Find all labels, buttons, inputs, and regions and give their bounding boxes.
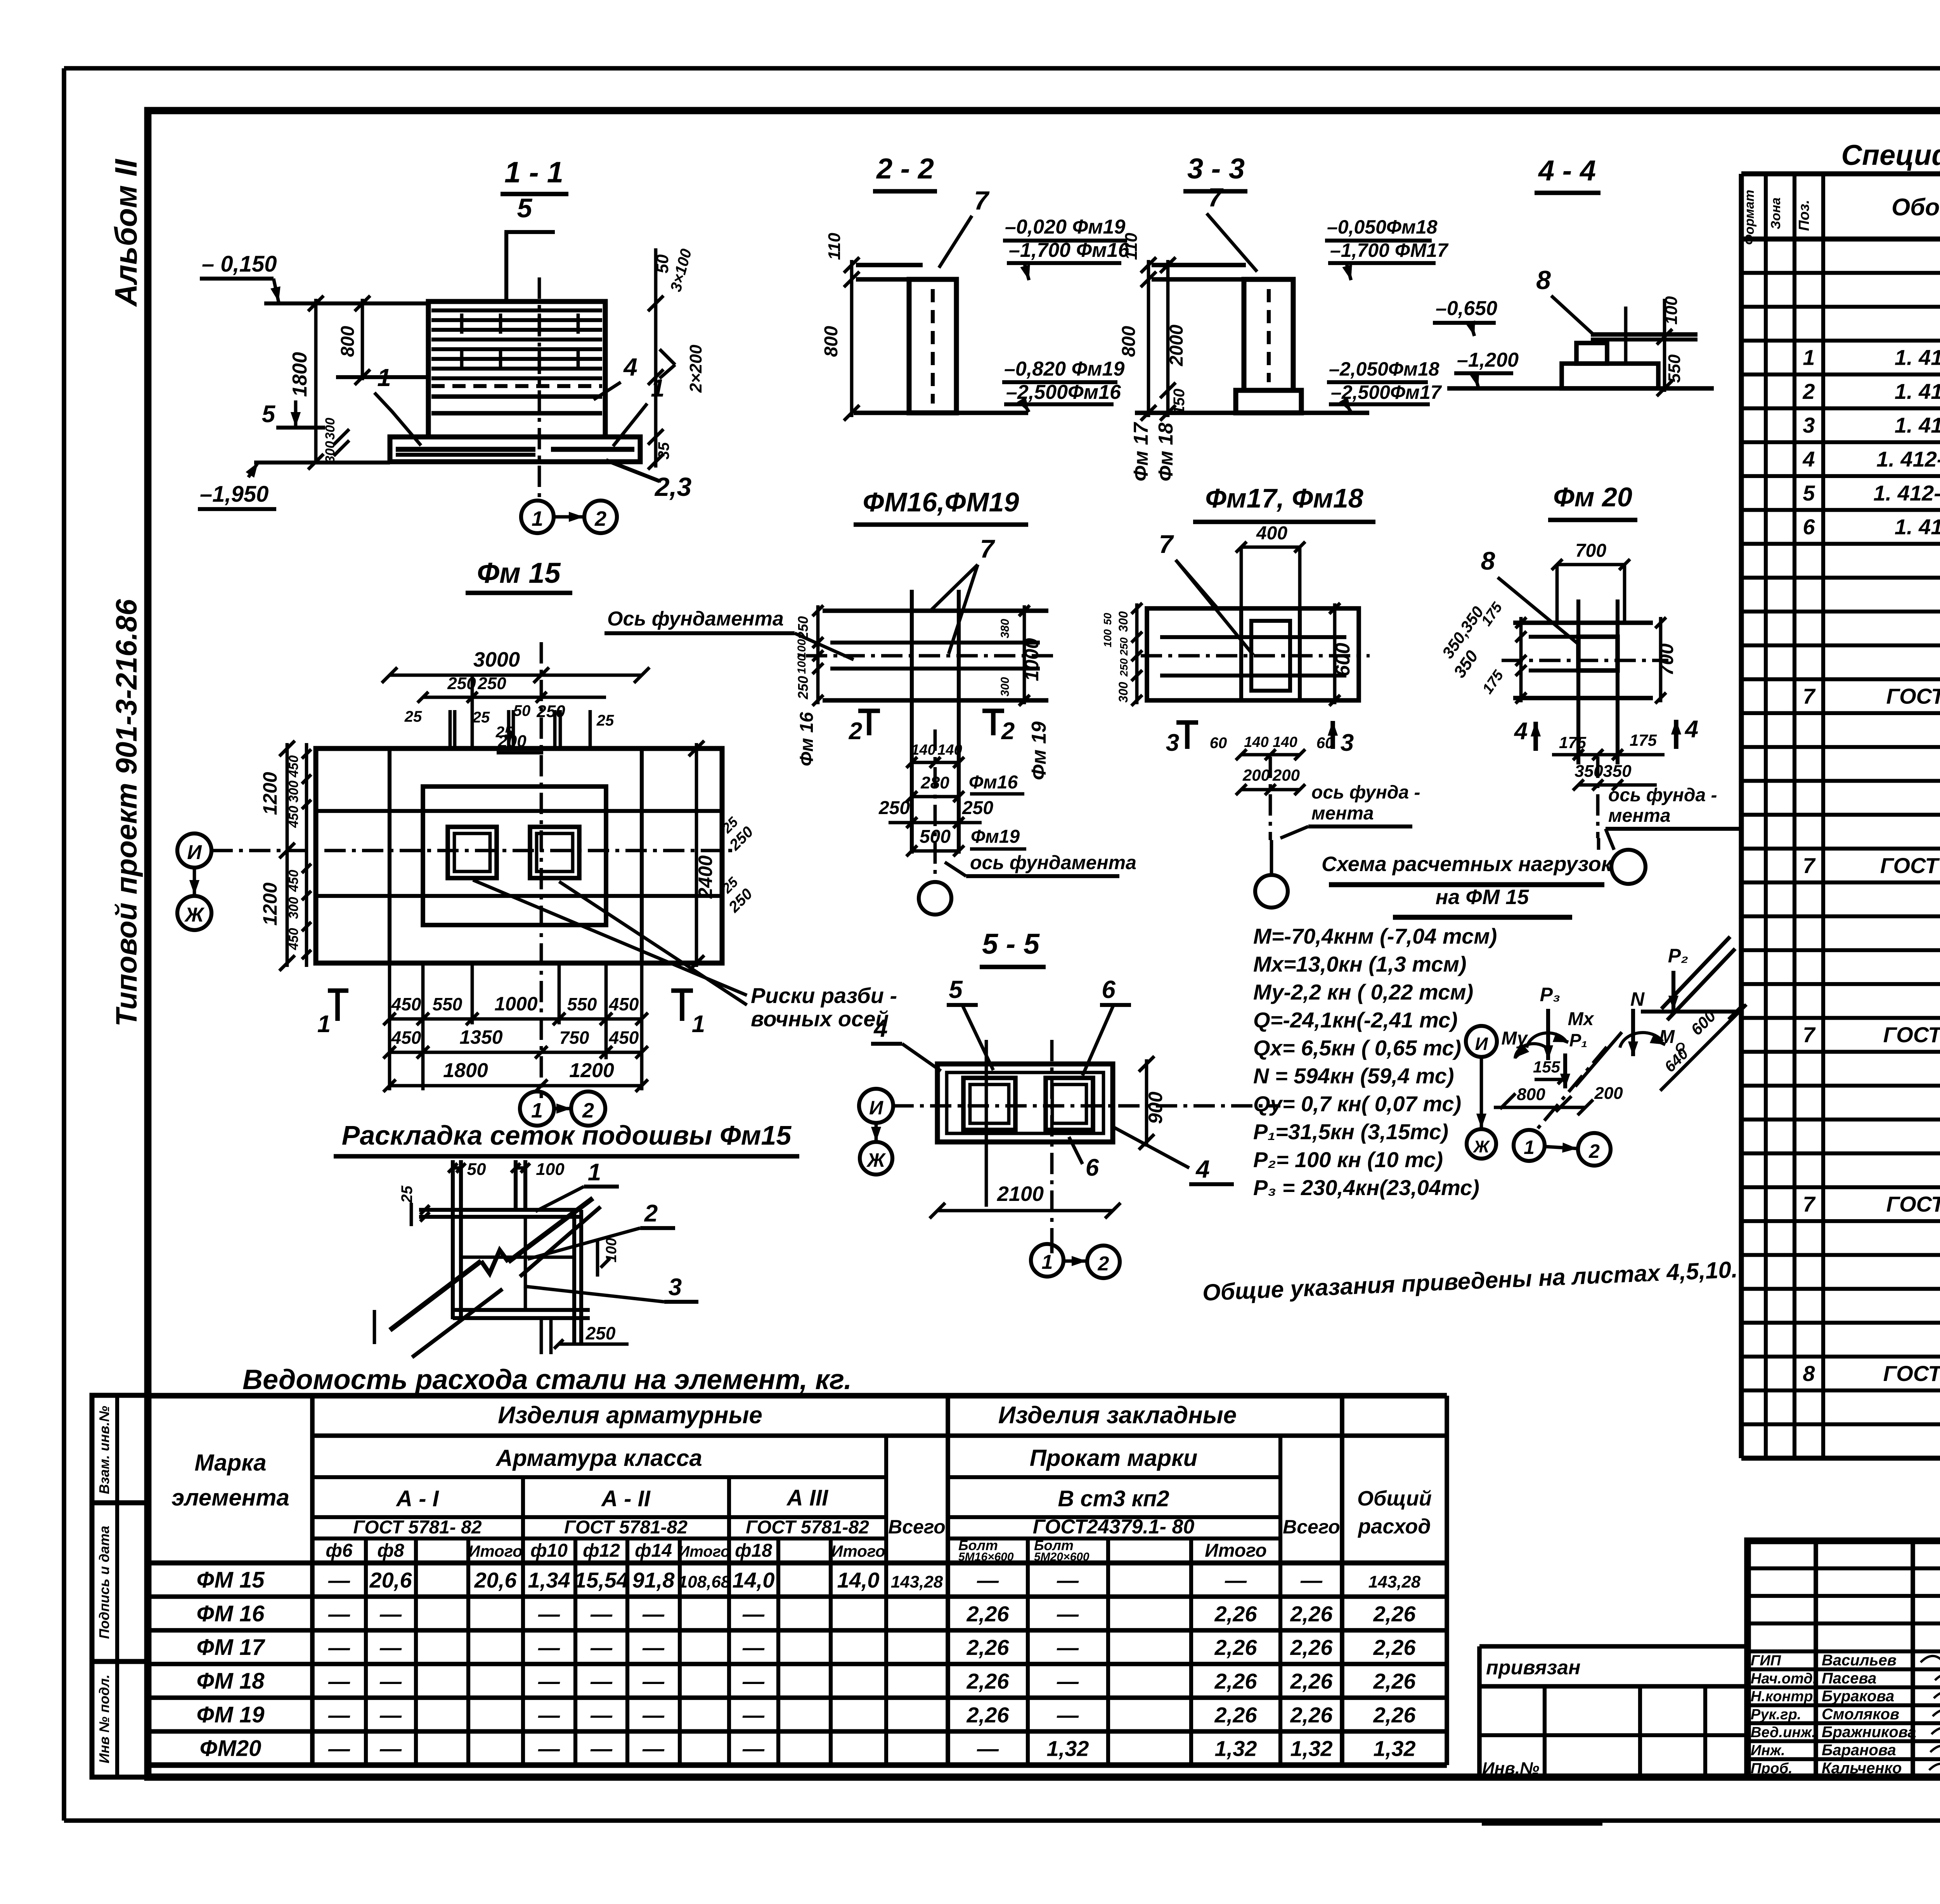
svg-text:–0,650: –0,650	[1436, 297, 1497, 320]
svg-text:Инв № подл.: Инв № подл.	[96, 1674, 112, 1763]
svg-text:6: 6	[1086, 1154, 1099, 1181]
svg-text:Марка: Марка	[194, 1450, 266, 1476]
svg-text:ГОСТ 5781-82: ГОСТ 5781-82	[746, 1517, 869, 1538]
svg-text:25: 25	[398, 1185, 416, 1203]
svg-text:—: —	[379, 1669, 402, 1693]
svg-text:7: 7	[974, 186, 990, 215]
svg-text:ГОСТ24379.1-80: ГОСТ24379.1-80	[1886, 1192, 1940, 1216]
svg-text:на ФМ 15: на ФМ 15	[1436, 885, 1529, 909]
svg-text:—: —	[379, 1635, 402, 1660]
svg-text:Н.контр.: Н.контр.	[1751, 1689, 1817, 1705]
svg-text:250: 250	[962, 798, 993, 818]
svg-text:–1,950: –1,950	[200, 482, 268, 507]
svg-text:2 - 2: 2 - 2	[876, 152, 934, 185]
svg-text:—: —	[642, 1601, 665, 1626]
svg-text:N = 594кн (59,4 тс): N = 594кн (59,4 тс)	[1253, 1064, 1454, 1088]
svg-text:1,32: 1,32	[1374, 1736, 1416, 1761]
svg-text:—: —	[328, 1635, 350, 1660]
svg-text:—: —	[1225, 1568, 1247, 1592]
svg-text:7: 7	[1803, 853, 1816, 878]
svg-text:2,26: 2,26	[967, 1703, 1010, 1727]
svg-text:2000: 2000	[1166, 324, 1187, 366]
svg-text:Qх= 6,5кн ( 0,65 тс): Qх= 6,5кн ( 0,65 тс)	[1253, 1036, 1461, 1060]
svg-text:2,26: 2,26	[967, 1635, 1010, 1660]
svg-text:—: —	[1057, 1703, 1079, 1727]
svg-text:Ось фундамента: Ось фундамента	[607, 608, 784, 630]
svg-text:14,0: 14,0	[733, 1568, 775, 1592]
svg-text:20,6: 20,6	[474, 1568, 517, 1592]
svg-text:8: 8	[1803, 1361, 1815, 1386]
svg-text:5: 5	[262, 401, 276, 428]
svg-text:1000: 1000	[494, 993, 537, 1015]
svg-text:450: 450	[286, 755, 301, 778]
svg-text:ф10: ф10	[530, 1540, 568, 1561]
svg-text:1. 410-2 Вып.1: 1. 410-2 Вып.1	[1895, 413, 1940, 437]
svg-text:Ж: Ж	[184, 904, 205, 926]
svg-text:800: 800	[1119, 326, 1139, 357]
svg-text:Р₂= 100 кн (10 тс): Р₂= 100 кн (10 тс)	[1253, 1147, 1443, 1172]
svg-text:3000: 3000	[473, 648, 520, 671]
svg-text:Инж.: Инж.	[1751, 1743, 1785, 1759]
svg-text:300: 300	[999, 677, 1012, 696]
svg-text:ГОСТ24379.1- 80: ГОСТ24379.1- 80	[1883, 1022, 1940, 1047]
svg-text:Итого: Итого	[468, 1542, 523, 1560]
svg-text:1. 410-2 Вып.1: 1. 410-2 Вып.1	[1895, 515, 1940, 539]
svg-text:2,3: 2,3	[654, 472, 692, 502]
svg-text:—: —	[1057, 1669, 1079, 1693]
svg-text:мента: мента	[1608, 806, 1671, 826]
svg-text:ось фунда -: ось фунда -	[1311, 782, 1420, 803]
svg-text:Типовой проект 901-3-216.86: Типовой проект 901-3-216.86	[110, 599, 143, 1026]
svg-text:ГИП: ГИП	[1751, 1653, 1781, 1669]
svg-text:4: 4	[1514, 718, 1528, 745]
svg-text:2,26: 2,26	[1373, 1703, 1416, 1727]
svg-text:2,26: 2,26	[967, 1601, 1010, 1626]
svg-text:2,26: 2,26	[1373, 1635, 1416, 1660]
svg-text:ФМ 18: ФМ 18	[197, 1668, 265, 1694]
svg-text:2: 2	[594, 507, 606, 530]
svg-text:2,26: 2,26	[1214, 1703, 1258, 1727]
svg-text:1200: 1200	[259, 882, 281, 925]
svg-text:ГОСТ 5781- 82: ГОСТ 5781- 82	[353, 1517, 482, 1538]
svg-text:4: 4	[1802, 447, 1815, 471]
svg-text:7: 7	[980, 534, 996, 563]
svg-text:Р₂: Р₂	[1668, 945, 1688, 967]
svg-text:450: 450	[609, 994, 639, 1014]
svg-text:–1,700 ФМ17: –1,700 ФМ17	[1330, 239, 1449, 261]
svg-text:Арматура класса: Арматура класса	[495, 1445, 702, 1471]
svg-text:200: 200	[1242, 766, 1270, 784]
svg-text:1200: 1200	[259, 772, 281, 815]
svg-text:—: —	[742, 1736, 765, 1761]
svg-text:Фм 16: Фм 16	[797, 712, 817, 766]
svg-text:5М16×600: 5М16×600	[958, 1551, 1014, 1563]
svg-text:ф6: ф6	[326, 1540, 352, 1561]
svg-text:300: 300	[1116, 682, 1130, 703]
svg-text:4: 4	[1195, 1155, 1210, 1183]
svg-text:Схема расчетных нагрузок: Схема расчетных нагрузок	[1322, 852, 1613, 876]
svg-text:—: —	[742, 1635, 765, 1660]
svg-text:1. 412- 1/77 Вып. 3: 1. 412- 1/77 Вып. 3	[1873, 481, 1940, 505]
svg-text:Итого: Итого	[831, 1542, 885, 1560]
svg-text:250: 250	[795, 676, 811, 700]
svg-text:140: 140	[937, 742, 962, 758]
svg-text:7: 7	[1803, 1192, 1816, 1216]
svg-text:–0,020 Фм19: –0,020 Фм19	[1005, 216, 1125, 238]
svg-text:25: 25	[472, 709, 490, 726]
svg-text:Бражникова: Бражникова	[1822, 1724, 1916, 1741]
svg-text:8: 8	[1536, 265, 1551, 295]
svg-text:Нач.отд.: Нач.отд.	[1751, 1670, 1817, 1687]
svg-text:1: 1	[1803, 345, 1815, 370]
svg-text:1800: 1800	[289, 352, 311, 397]
svg-text:Альбом II: Альбом II	[109, 159, 143, 307]
svg-text:ф18: ф18	[735, 1540, 772, 1561]
svg-text:ГОСТ24379.1- 80: ГОСТ24379.1- 80	[1033, 1516, 1195, 1538]
svg-text:250: 250	[878, 798, 910, 818]
svg-text:Р₁=31,5кн (3,15тс): Р₁=31,5кн (3,15тс)	[1253, 1119, 1448, 1144]
svg-text:6: 6	[1102, 975, 1115, 1003]
svg-text:2: 2	[1802, 379, 1815, 404]
svg-text:450: 450	[609, 1027, 639, 1048]
svg-text:300: 300	[323, 441, 338, 463]
svg-text:—: —	[1057, 1568, 1079, 1592]
svg-text:Итого: Итого	[1205, 1540, 1267, 1561]
svg-text:3: 3	[1341, 729, 1354, 756]
svg-text:1: 1	[651, 374, 665, 402]
svg-text:—: —	[977, 1568, 999, 1592]
svg-text:91,8: 91,8	[632, 1568, 675, 1592]
svg-text:7: 7	[1208, 183, 1224, 212]
svg-text:1: 1	[317, 1011, 331, 1038]
svg-text:3: 3	[1166, 729, 1179, 756]
svg-text:–1,200: –1,200	[1457, 349, 1519, 371]
svg-text:2400: 2400	[695, 855, 716, 899]
svg-text:20,6: 20,6	[369, 1568, 412, 1592]
svg-text:380: 380	[999, 619, 1012, 638]
svg-text:—: —	[328, 1669, 350, 1693]
svg-text:2,26: 2,26	[1290, 1601, 1333, 1626]
svg-text:14,0: 14,0	[837, 1568, 880, 1592]
svg-text:1: 1	[1524, 1137, 1535, 1158]
svg-text:4: 4	[623, 353, 637, 381]
svg-text:—: —	[328, 1568, 350, 1592]
svg-text:1,32: 1,32	[1290, 1736, 1333, 1761]
svg-text:—: —	[538, 1601, 560, 1626]
svg-text:Фм 20: Фм 20	[1553, 482, 1632, 512]
svg-text:Зона: Зона	[1769, 198, 1783, 229]
svg-text:1: 1	[377, 364, 391, 392]
svg-text:250: 250	[585, 1323, 616, 1343]
svg-text:Р₃ = 230,4кн(23,04тс): Р₃ = 230,4кн(23,04тс)	[1253, 1175, 1479, 1200]
svg-text:Спецификация фундаментов Фм: Спецификация фундаментов Фм 15 - Фм 20	[1841, 139, 1940, 171]
svg-text:2,26: 2,26	[1290, 1703, 1333, 1727]
svg-text:1800: 1800	[443, 1059, 488, 1082]
svg-text:Q=-24,1кн(-2,41 тс): Q=-24,1кн(-2,41 тс)	[1253, 1008, 1458, 1032]
svg-text:—: —	[590, 1669, 613, 1693]
svg-text:И: И	[869, 1097, 883, 1119]
svg-text:—: —	[328, 1703, 350, 1727]
svg-text:1. 410-2 Вып.1: 1. 410-2 Вып.1	[1895, 345, 1940, 370]
svg-text:ось фундамента: ось фундамента	[970, 852, 1136, 873]
svg-text:—: —	[538, 1669, 560, 1693]
svg-text:1,34: 1,34	[528, 1568, 570, 1592]
svg-text:250: 250	[1118, 637, 1130, 656]
svg-text:Пасева: Пасева	[1822, 1670, 1876, 1687]
svg-text:25: 25	[596, 712, 614, 729]
svg-text:200: 200	[1594, 1084, 1623, 1103]
svg-text:5: 5	[949, 975, 963, 1003]
svg-text:ФМ 19: ФМ 19	[197, 1702, 265, 1727]
svg-text:–0,050Фм18: –0,050Фм18	[1327, 216, 1438, 238]
svg-text:Изделия закладные: Изделия закладные	[998, 1402, 1237, 1429]
svg-text:50: 50	[467, 1160, 486, 1179]
svg-text:8: 8	[1481, 546, 1495, 575]
svg-text:2: 2	[1588, 1140, 1600, 1162]
svg-text:Смоляков: Смоляков	[1822, 1706, 1899, 1723]
svg-text:—: —	[379, 1703, 402, 1727]
svg-text:Му-2,2 кн ( 0,22 тсм): Му-2,2 кн ( 0,22 тсм)	[1253, 980, 1473, 1004]
svg-text:—: —	[742, 1601, 765, 1626]
svg-text:—: —	[328, 1736, 350, 1761]
svg-text:—: —	[742, 1669, 765, 1693]
svg-text:1: 1	[692, 1011, 705, 1038]
svg-text:–0,820 Фм19: –0,820 Фм19	[1004, 358, 1124, 380]
svg-text:155: 155	[1533, 1058, 1561, 1076]
svg-text:привязан: привязан	[1486, 1656, 1581, 1679]
svg-text:—: —	[742, 1703, 765, 1727]
svg-text:2: 2	[849, 718, 862, 745]
svg-text:Кальченко: Кальченко	[1822, 1760, 1902, 1777]
svg-text:А III: А III	[786, 1485, 829, 1511]
svg-text:250: 250	[477, 674, 506, 693]
svg-text:Раскладка сеток подошвы Фм15: Раскладка сеток подошвы Фм15	[342, 1120, 792, 1150]
svg-text:300: 300	[286, 897, 301, 919]
svg-text:расход: расход	[1357, 1515, 1431, 1538]
svg-text:—: —	[1057, 1635, 1079, 1660]
svg-text:700: 700	[1575, 541, 1606, 561]
svg-text:900: 900	[1145, 1091, 1166, 1124]
svg-text:ФМ 16: ФМ 16	[197, 1601, 265, 1626]
svg-text:Рук.гр.: Рук.гр.	[1751, 1706, 1801, 1723]
svg-text:1: 1	[588, 1159, 601, 1186]
svg-text:3: 3	[1803, 413, 1815, 437]
svg-text:Риски разби -: Риски разби -	[751, 983, 897, 1008]
svg-text:450: 450	[286, 870, 301, 892]
svg-text:—: —	[642, 1635, 665, 1660]
svg-text:450: 450	[286, 928, 301, 951]
svg-text:100: 100	[603, 1238, 620, 1262]
svg-text:Фм19: Фм19	[971, 826, 1020, 847]
svg-text:Фм 17: Фм 17	[1130, 422, 1152, 481]
svg-text:—: —	[1300, 1568, 1323, 1592]
svg-text:Фм17, Фм18: Фм17, Фм18	[1205, 483, 1363, 513]
svg-text:—: —	[538, 1703, 560, 1727]
svg-text:110: 110	[825, 232, 844, 260]
svg-text:100: 100	[536, 1160, 565, 1179]
svg-text:300: 300	[323, 418, 338, 440]
svg-text:200: 200	[1272, 766, 1300, 784]
svg-text:Мх: Мх	[1568, 1009, 1595, 1029]
svg-text:60: 60	[1316, 735, 1334, 752]
svg-text:Ж: Ж	[1473, 1137, 1490, 1156]
svg-text:—: —	[642, 1669, 665, 1693]
svg-text:100: 100	[1102, 629, 1114, 647]
svg-text:Общий: Общий	[1357, 1487, 1432, 1510]
svg-text:—: —	[642, 1736, 665, 1761]
svg-text:1200: 1200	[569, 1059, 614, 1082]
svg-text:143,28: 143,28	[891, 1572, 943, 1591]
svg-text:Прокат марки: Прокат марки	[1030, 1445, 1197, 1471]
svg-text:Изделия арматурные: Изделия арматурные	[498, 1402, 762, 1429]
svg-text:Фм16: Фм16	[969, 772, 1018, 793]
svg-text:1,32: 1,32	[1047, 1736, 1089, 1761]
svg-text:Qу= 0,7 кн( 0,07 тс): Qу= 0,7 кн( 0,07 тс)	[1253, 1091, 1461, 1116]
svg-text:2,26: 2,26	[967, 1669, 1010, 1693]
svg-text:Всего: Всего	[1283, 1516, 1340, 1538]
svg-text:ф12: ф12	[583, 1540, 620, 1561]
svg-text:Инв.№: Инв.№	[1482, 1759, 1539, 1778]
svg-text:ф14: ф14	[635, 1540, 672, 1561]
svg-text:Фм 18: Фм 18	[1155, 423, 1177, 481]
svg-text:ф8: ф8	[377, 1540, 404, 1561]
svg-text:М=-70,4кнм (-7,04 тсм): М=-70,4кнм (-7,04 тсм)	[1253, 924, 1497, 948]
svg-text:2,26: 2,26	[1373, 1601, 1416, 1626]
svg-text:элемента: элемента	[171, 1485, 289, 1511]
svg-text:1 - 1: 1 - 1	[504, 156, 563, 189]
svg-text:—: —	[977, 1736, 999, 1761]
svg-text:1,32: 1,32	[1215, 1736, 1257, 1761]
svg-text:В ст3 кп2: В ст3 кп2	[1058, 1486, 1169, 1511]
svg-text:800: 800	[338, 326, 358, 357]
svg-text:–1,700 Фм16: –1,700 Фм16	[1009, 239, 1129, 262]
svg-text:140: 140	[1244, 734, 1268, 750]
svg-text:2,26: 2,26	[1290, 1635, 1333, 1660]
svg-text:4: 4	[1684, 716, 1698, 743]
svg-text:4 - 4: 4 - 4	[1538, 154, 1596, 187]
svg-text:Р₃: Р₃	[1540, 984, 1561, 1005]
svg-text:мента: мента	[1311, 803, 1374, 824]
svg-text:450: 450	[391, 994, 421, 1014]
svg-text:—: —	[538, 1635, 560, 1660]
svg-text:Подпись и дата: Подпись и дата	[96, 1526, 112, 1639]
svg-text:35: 35	[655, 442, 672, 459]
svg-text:2: 2	[644, 1200, 658, 1227]
svg-text:1. 410-2 Вып.1: 1. 410-2 Вып.1	[1895, 379, 1940, 404]
svg-text:– 0,150: – 0,150	[202, 251, 277, 277]
svg-text:5: 5	[517, 193, 533, 223]
svg-text:Итого: Итого	[678, 1543, 730, 1560]
svg-text:7: 7	[1803, 1022, 1816, 1047]
svg-text:А - I: А - I	[395, 1486, 439, 1511]
svg-text:3 - 3: 3 - 3	[1187, 152, 1245, 185]
svg-text:ГОСТ 5781-82: ГОСТ 5781-82	[564, 1517, 688, 1538]
svg-text:143,28: 143,28	[1368, 1572, 1421, 1591]
svg-text:Вед.инж.: Вед.инж.	[1751, 1724, 1816, 1741]
svg-text:ФМ20: ФМ20	[200, 1736, 262, 1761]
svg-text:1. 412- 1/77 Вып.3: 1. 412- 1/77 Вып.3	[1876, 447, 1940, 471]
svg-text:800: 800	[1517, 1085, 1545, 1104]
svg-text:И: И	[187, 841, 202, 864]
svg-text:Васильев: Васильев	[1822, 1652, 1897, 1669]
svg-text:60: 60	[1210, 735, 1227, 752]
svg-text:ФМ 15: ФМ 15	[197, 1567, 265, 1592]
svg-text:Фм 19: Фм 19	[1028, 721, 1050, 780]
svg-text:—: —	[379, 1601, 402, 1626]
svg-text:2,26: 2,26	[1214, 1669, 1258, 1693]
svg-text:2,26: 2,26	[1214, 1635, 1258, 1660]
svg-text:Буракова: Буракова	[1822, 1688, 1894, 1705]
svg-text:5М20×600: 5М20×600	[1034, 1551, 1090, 1563]
svg-text:1: 1	[531, 1099, 543, 1122]
svg-text:140: 140	[1273, 734, 1297, 750]
svg-text:ГОСТ24379.1- 80: ГОСТ24379.1- 80	[1883, 1361, 1940, 1386]
svg-text:Проб.: Проб.	[1751, 1760, 1793, 1777]
svg-text:5 - 5: 5 - 5	[982, 928, 1040, 960]
svg-text:ГОСТ 24379.1- 80: ГОСТ 24379.1- 80	[1880, 853, 1940, 878]
svg-text:350: 350	[1603, 762, 1632, 781]
svg-text:—: —	[590, 1635, 613, 1660]
svg-text:1: 1	[532, 507, 543, 530]
svg-text:Обозначение: Обозначение	[1891, 194, 1940, 221]
svg-text:5: 5	[1803, 481, 1815, 505]
svg-text:—: —	[379, 1736, 402, 1761]
svg-text:2×200: 2×200	[686, 345, 705, 393]
svg-text:—: —	[328, 1601, 350, 1626]
svg-text:N: N	[1630, 988, 1645, 1010]
svg-text:140: 140	[911, 742, 935, 758]
svg-text:—: —	[642, 1703, 665, 1727]
svg-text:ФМ 17: ФМ 17	[197, 1635, 266, 1660]
svg-text:25: 25	[404, 708, 422, 725]
svg-text:175: 175	[1630, 731, 1657, 749]
svg-text:Баранова: Баранова	[1822, 1742, 1896, 1759]
svg-text:И: И	[1475, 1034, 1488, 1054]
svg-text:1000: 1000	[1021, 638, 1043, 681]
svg-text:50: 50	[653, 254, 672, 273]
svg-text:Ведомость расхода стали на: Ведомость расхода стали на элемент, кг.	[242, 1364, 852, 1395]
svg-text:7: 7	[1159, 530, 1174, 558]
svg-text:ось фунда -: ось фунда -	[1608, 785, 1717, 806]
svg-text:А - II: А - II	[601, 1486, 651, 1511]
svg-text:4: 4	[873, 1014, 888, 1042]
svg-text:700: 700	[1656, 643, 1677, 676]
svg-text:ФМ16,ФМ19: ФМ16,ФМ19	[863, 487, 1019, 517]
svg-text:—: —	[1057, 1601, 1079, 1626]
svg-text:2,26: 2,26	[1373, 1669, 1416, 1693]
svg-text:6: 6	[1803, 515, 1815, 539]
svg-text:Ж: Ж	[866, 1149, 886, 1171]
svg-text:50: 50	[513, 702, 531, 719]
svg-text:–2,050Фм18: –2,050Фм18	[1329, 358, 1439, 380]
svg-text:—: —	[590, 1601, 613, 1626]
svg-text:50: 50	[1102, 613, 1114, 625]
svg-text:110: 110	[1122, 232, 1141, 260]
svg-text:Формат: Формат	[1742, 190, 1757, 245]
svg-text:—: —	[590, 1736, 613, 1761]
svg-text:100: 100	[1662, 296, 1681, 325]
svg-text:Взам. инв.№: Взам. инв.№	[96, 1406, 112, 1494]
svg-text:2: 2	[1001, 718, 1015, 745]
svg-text:2: 2	[1098, 1253, 1109, 1275]
svg-text:450: 450	[286, 806, 301, 828]
svg-text:550: 550	[1665, 354, 1684, 383]
svg-text:800: 800	[821, 326, 842, 357]
svg-text:150: 150	[1171, 389, 1188, 415]
svg-text:100: 100	[795, 655, 808, 674]
svg-text:Всего: Всего	[888, 1516, 946, 1538]
svg-text:1350: 1350	[459, 1026, 502, 1048]
